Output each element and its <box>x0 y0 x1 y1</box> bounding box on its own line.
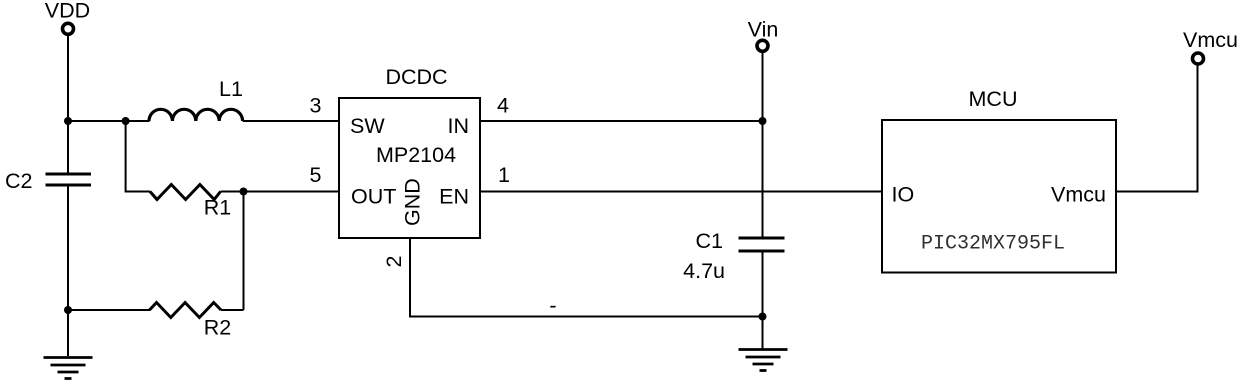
capacitor C1 value 4.7u <box>683 229 784 283</box>
IC U2 MCU PIC32MX795FL <box>882 87 1116 273</box>
junction dot L1/R1 branch <box>122 117 130 125</box>
resistor R2 <box>150 303 232 340</box>
capacitor C2 <box>5 169 91 193</box>
wire VDD rail to L1 <box>68 120 150 122</box>
wire R1 to OUT pin 5 <box>221 191 340 193</box>
wire Vin terminal to node <box>762 52 764 121</box>
wire C1 to ground node <box>762 253 764 317</box>
svg-text:R2: R2 <box>204 316 231 340</box>
IC U1 DCDC MP2104 <box>339 65 480 238</box>
svg-text:L1: L1 <box>219 77 243 101</box>
svg-text:5: 5 <box>310 163 322 187</box>
junction dot VDD rail/R2 <box>64 306 72 314</box>
svg-text:PIC32MX795FL: PIC32MX795FL <box>921 233 1065 256</box>
svg-text:C1: C1 <box>696 229 723 253</box>
wire R1/R2 vertical <box>243 192 245 311</box>
wire VDD rail upper (VDD terminal to C2) <box>67 35 69 172</box>
svg-text:Vmcu: Vmcu <box>1051 183 1106 207</box>
wire GND pin 2 to ground node <box>410 238 763 317</box>
power terminal VDD <box>45 0 90 34</box>
wire IN pin 4 to Vin node <box>480 120 763 122</box>
svg-text:SW: SW <box>350 114 385 138</box>
svg-text:GND: GND <box>401 178 425 226</box>
ground (left) <box>44 358 93 379</box>
svg-text:3: 3 <box>310 94 322 118</box>
svg-text:4: 4 <box>497 94 509 118</box>
svg-text:OUT: OUT <box>351 185 396 209</box>
wire R1 branch vertical <box>126 121 150 192</box>
svg-text:C2: C2 <box>5 169 32 193</box>
wire VDD rail to R2 <box>68 309 150 311</box>
svg-text:R1: R1 <box>204 196 231 220</box>
power terminal Vin <box>748 18 779 52</box>
svg-text:MP2104: MP2104 <box>376 143 456 167</box>
inductor L1 <box>149 77 243 121</box>
svg-text:1: 1 <box>498 163 510 187</box>
wire Vin node to C1 <box>762 121 764 237</box>
resistor R1 <box>150 185 231 220</box>
wire MCU Vmcu pin to Vmcu terminal <box>1116 65 1198 192</box>
svg-text:Vin: Vin <box>748 18 779 42</box>
power terminal Vmcu <box>1183 28 1238 64</box>
svg-text:2: 2 <box>382 256 406 268</box>
ground (right) <box>739 350 788 371</box>
wire VDD rail lower (C2 to ground) <box>67 187 69 357</box>
svg-text:-: - <box>549 294 556 318</box>
svg-text:DCDC: DCDC <box>385 65 447 89</box>
junction dot node VDD/L1 branch <box>64 117 72 125</box>
wire L1 to SW pin 3 <box>243 120 339 122</box>
wire ground node to ground symbol <box>762 317 764 351</box>
svg-text:IN: IN <box>448 114 470 138</box>
svg-text:4.7u: 4.7u <box>683 259 725 283</box>
junction dot node Vin/IN/C1 <box>759 117 767 125</box>
junction dot ground node <box>759 313 767 321</box>
svg-text:VDD: VDD <box>45 0 90 23</box>
wire EN pin 1 to MCU IO <box>480 191 882 193</box>
wire R2 to R1/R2 vertical <box>221 309 244 311</box>
svg-text:MCU: MCU <box>969 87 1018 111</box>
junction dot node R1/R2/OUT <box>240 188 248 196</box>
svg-text:Vmcu: Vmcu <box>1183 28 1238 52</box>
svg-text:EN: EN <box>439 185 469 209</box>
svg-text:IO: IO <box>892 183 915 207</box>
